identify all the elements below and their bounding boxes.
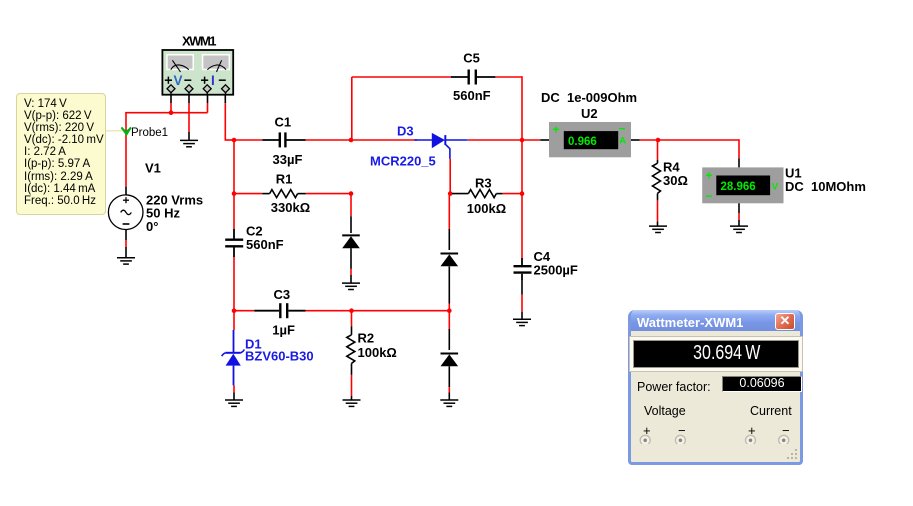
- wire V1 bottom to ground: [125, 229, 127, 257]
- node junction R2 top (351.5,310.7): [349, 308, 354, 313]
- ground R4: [649, 226, 667, 232]
- wire C3 row to gate branch: [352, 310, 450, 312]
- svg-text:DC 10MOhm: DC 10MOhm: [785, 179, 866, 194]
- svg-text:0°: 0°: [146, 219, 158, 234]
- svg-text:U2: U2: [581, 106, 598, 121]
- capacitor C3: [254, 303, 305, 318]
- ground R2: [343, 400, 361, 406]
- node junction C3 left (234,310.7): [232, 308, 237, 313]
- resistor R4: [653, 163, 661, 200]
- node junction R1 left (234,193.6): [232, 191, 237, 196]
- svg-text:560nF: 560nF: [453, 88, 491, 103]
- svg-text:V: V: [174, 73, 183, 88]
- label V1: [145, 160, 203, 234]
- label C5: [453, 51, 491, 103]
- label R3: [467, 175, 506, 216]
- wire below gate junction: [448, 311, 450, 350]
- wire XWM1 terminal 4 down: [225, 91, 235, 140]
- label U1: [785, 165, 866, 194]
- label C2: [246, 223, 284, 252]
- ground XWM1: [180, 140, 198, 146]
- ground V1: [117, 258, 135, 264]
- wire to U1 branch: [658, 139, 739, 167]
- wire U1 bottom lead: [738, 203, 740, 225]
- diode D5 (unlabeled, lower): [441, 354, 459, 388]
- capacitor C2: [225, 229, 243, 257]
- label R2: [358, 330, 397, 360]
- svg-text:C3: C3: [274, 287, 291, 302]
- wire R4 to ground: [657, 200, 659, 225]
- wire R4 branch: [657, 140, 659, 163]
- wire C5 row: [352, 76, 451, 78]
- zener diode D1: [222, 330, 245, 385]
- wire x=351 vertical C5 to C1 row: [351, 77, 353, 140]
- svg-text:A: A: [619, 136, 626, 147]
- svg-text:XWM1: XWM1: [182, 34, 216, 49]
- node junction D (658,140): [656, 138, 661, 143]
- svg-text:MCR220_5: MCR220_5: [370, 154, 436, 169]
- wire x=522 vertical: [521, 76, 523, 193]
- svg-text:+: +: [706, 169, 713, 183]
- diode D2 (unlabeled, upper left): [342, 235, 360, 269]
- label C1: [273, 114, 303, 167]
- wire V1 top vertical: [125, 113, 127, 195]
- svg-text:R2: R2: [358, 330, 375, 345]
- svg-text:Probe1: Probe1: [131, 127, 168, 139]
- wire D1 to ground: [233, 385, 235, 399]
- wire C3 row left: [234, 310, 254, 312]
- capacitor C5: [451, 70, 496, 85]
- node junction gate branch (449.3,310.7): [447, 308, 452, 313]
- wire diode D5 to ground: [448, 387, 450, 400]
- resistor R1: [234, 190, 351, 198]
- wire C1 row right: [306, 139, 352, 141]
- wire C1 row left: [234, 139, 262, 141]
- ground U1: [730, 226, 748, 232]
- label R4: [663, 160, 688, 189]
- svg-text:DC 1e-009Ohm: DC 1e-009Ohm: [541, 90, 637, 105]
- diode D4 (unlabeled, middle): [441, 254, 459, 304]
- svg-text:560nF: 560nF: [246, 237, 284, 252]
- svg-text:I: I: [211, 73, 215, 88]
- source V1: [108, 195, 143, 230]
- wire C4 to ground: [521, 280, 523, 319]
- wire U2 left lead: [522, 139, 549, 141]
- svg-text:0.966: 0.966: [568, 136, 597, 148]
- wire left vertical x=234 (C1 node down): [233, 140, 235, 194]
- capacitor C4: [514, 258, 532, 280]
- ground C4: [513, 319, 531, 325]
- label D3: [370, 124, 436, 169]
- wire U2 right lead: [631, 139, 658, 141]
- node junction R1 right (351,193.6): [349, 191, 354, 196]
- voltmeter U1: [702, 167, 783, 203]
- ground diode D5: [440, 400, 458, 406]
- wattmeter XWM1 instrument: [162, 50, 233, 95]
- wire XWM1 terminal 3: [207, 91, 209, 113]
- svg-text:−: −: [706, 189, 713, 203]
- wattmeter dialog: [628, 310, 803, 465]
- capacitor C1: [262, 132, 305, 147]
- node junction B (351,140): [349, 138, 354, 143]
- wire x=522 down to C4: [521, 194, 523, 258]
- wire C5 row right: [495, 76, 522, 78]
- probe Probe1 marker: [106, 127, 132, 136]
- wire C3 row right: [306, 310, 352, 312]
- label D1: [245, 337, 314, 364]
- svg-text:1µF: 1µF: [272, 322, 295, 337]
- svg-text:28.966: 28.966: [721, 181, 756, 193]
- svg-text:R3: R3: [475, 175, 492, 190]
- wire D1 branch top: [233, 311, 235, 330]
- svg-text:V: V: [772, 182, 779, 193]
- ground diode D2: [342, 283, 360, 289]
- svg-text:BZV60-B30: BZV60-B30: [245, 349, 314, 364]
- resistor R2: [347, 311, 355, 375]
- wire top horizontal node: [125, 112, 207, 114]
- wire diode to ground: [350, 269, 352, 283]
- wire gate branch down: [449, 159, 451, 194]
- wire x=234 C2 to C3 row: [233, 257, 235, 311]
- svg-text:2500µF: 2500µF: [534, 263, 578, 278]
- svg-text:C5: C5: [463, 51, 480, 66]
- label U2: [541, 90, 637, 121]
- svg-text:100kΩ: 100kΩ: [467, 201, 506, 216]
- label C3: [272, 287, 295, 337]
- node junction C (522,140): [520, 138, 525, 143]
- ammeter U2: [549, 122, 631, 158]
- wire x=234 R1 to C2: [233, 194, 235, 229]
- wire D3 row left: [351, 139, 417, 141]
- label R1: [271, 171, 310, 215]
- label XWM1: [182, 34, 216, 49]
- node junction A (234,140): [232, 138, 237, 143]
- svg-text:33µF: 33µF: [273, 152, 303, 167]
- thyristor D3: [414, 133, 467, 159]
- node junction T1: [169, 110, 174, 115]
- svg-text:C1: C1: [275, 114, 292, 129]
- wire diode D4 to C3 row: [448, 304, 450, 311]
- svg-text:V1: V1: [145, 160, 161, 175]
- wire x=351 R1 right down to diode: [350, 194, 352, 233]
- wire XWM1 terminal 2 to ground: [188, 91, 190, 140]
- node junction R3 right (522,193.6): [520, 191, 525, 196]
- svg-text:+: +: [553, 123, 560, 137]
- svg-text:30Ω: 30Ω: [663, 173, 688, 188]
- wire R2 to ground: [351, 375, 353, 400]
- probe readout box: [16, 93, 106, 215]
- resistor R3: [452, 190, 522, 198]
- wire gate branch to diode: [448, 194, 450, 250]
- svg-text:−: −: [619, 122, 626, 136]
- ground D1: [225, 400, 243, 406]
- svg-text:330kΩ: 330kΩ: [271, 200, 310, 215]
- wire XWM1 terminal 1: [170, 91, 172, 113]
- svg-text:R1: R1: [276, 171, 293, 186]
- wire D3 row right: [468, 139, 522, 141]
- svg-text:100kΩ: 100kΩ: [358, 345, 397, 360]
- label C4: [534, 249, 578, 278]
- label Probe1: [131, 127, 168, 139]
- node junction gate/R3 (450,193.6): [448, 191, 453, 196]
- svg-text:D3: D3: [397, 124, 414, 139]
